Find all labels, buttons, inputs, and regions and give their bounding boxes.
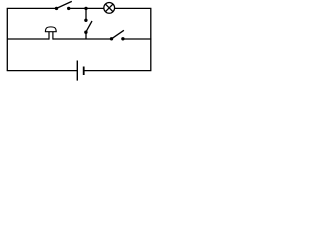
switch S1 (top wire, open): [55, 1, 72, 10]
wire: top, left segment to switch S1: [7, 7, 57, 9]
battery: short plate (-): [83, 67, 85, 76]
wire: stub from switch S2 lower contact to middle wire: [85, 32, 87, 39]
wire: right vertical: [150, 8, 152, 70]
wire: middle, bell to switch S3: [53, 38, 112, 40]
wire: bottom, battery to right: [84, 70, 152, 72]
wire: bottom, left to battery: [7, 70, 78, 72]
wire: middle, switch S3 to right vertical: [123, 38, 151, 40]
wire: left vertical: [6, 8, 8, 70]
wire: middle, left vertical to bell: [7, 38, 49, 40]
node A: junction dot on top wire: [84, 7, 87, 10]
wire: top, lamp to right vertical: [114, 7, 151, 9]
wire: top, between switch S1 and lamp: [69, 7, 104, 9]
battery: long plate (+): [76, 61, 78, 81]
switch S3 (middle wire, open): [110, 30, 125, 40]
lamp L1: [104, 3, 115, 14]
bell B1: [45, 27, 57, 40]
switch S2 (branch between top and middle wires, open): [84, 19, 92, 34]
wire: branch vertical from node A to switch S2: [85, 8, 87, 20]
